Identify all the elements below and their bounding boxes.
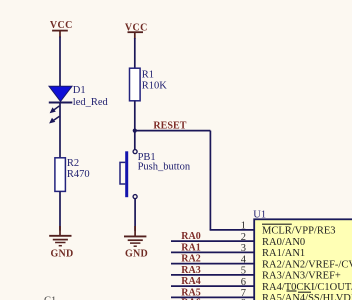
power VCC (right): [125, 23, 148, 40]
svg-text:RA3/AN3/VREF+: RA3/AN3/VREF+: [262, 271, 341, 282]
ground GND (left): [49, 226, 73, 260]
wire pin 5 RA3: [171, 274, 254, 276]
wire R2 to GND: [59, 191, 61, 230]
wire VCC to LED anode: [59, 37, 61, 87]
svg-text:Push_button: Push_button: [138, 162, 191, 173]
svg-text:RA1/AN1: RA1/AN1: [262, 248, 305, 259]
wire LED cathode to R2: [59, 102, 61, 158]
wire pin 3 RA1: [171, 251, 254, 253]
pin 1 name MCLR/VPP/RE3 with MCLR overline: [262, 224, 336, 236]
ground GND (right): [124, 226, 148, 260]
svg-text:RA5/AN4/SS/HLVDIN/C2OUT: RA5/AN4/SS/HLVDIN/C2OUT: [262, 293, 352, 300]
svg-text:RA2: RA2: [181, 254, 200, 265]
wire VCC to R1: [134, 38, 136, 68]
svg-text:R10K: R10K: [142, 81, 168, 92]
svg-text:R470: R470: [67, 169, 90, 180]
wire pin 6 RA4: [171, 285, 254, 287]
svg-text:R1: R1: [142, 70, 154, 81]
svg-text:RA2/AN2/VREF-/CVREF: RA2/AN2/VREF-/CVREF: [262, 259, 352, 270]
svg-text:RA3: RA3: [181, 265, 200, 276]
svg-text:MCLR/VPP/RE3: MCLR/VPP/RE3: [262, 226, 336, 237]
wire RESET vertical: [209, 131, 211, 230]
svg-text:VCC: VCC: [50, 20, 73, 31]
svg-text:GND: GND: [50, 249, 73, 260]
power VCC (left): [50, 20, 73, 37]
svg-text:RA0/AN0: RA0/AN0: [262, 237, 305, 248]
svg-text:R2: R2: [67, 158, 79, 169]
junction: [133, 129, 137, 133]
push button PB1: [120, 150, 191, 199]
pin 6 name RA4/T0CKI/C1OUT/RCV with underline: [262, 282, 352, 293]
wire to pin 1: [210, 229, 254, 231]
pin 7 name RA5/AN4/SS/HLVDIN/C2OUT with SS overline: [262, 292, 352, 300]
IC U1 body: [253, 209, 352, 300]
svg-text:RA4/T0CKI/C1OUT/RCV: RA4/T0CKI/C1OUT/RCV: [262, 282, 352, 293]
svg-text:RA4: RA4: [181, 276, 200, 287]
wire PB1 to GND: [134, 199, 136, 231]
svg-text:GND: GND: [125, 249, 148, 260]
wire R1 to junction and PB1: [134, 101, 136, 150]
wire pin 2 RA0: [171, 240, 254, 242]
wire pin 7 RA5: [171, 296, 254, 298]
LED D1 led_Red: [49, 85, 109, 124]
svg-text:C1: C1: [44, 296, 56, 300]
resistor R2 R470: [55, 158, 90, 192]
wire RESET horizontal: [135, 130, 211, 132]
svg-text:led_Red: led_Red: [73, 97, 109, 108]
svg-text:1: 1: [241, 221, 246, 232]
svg-text:D1: D1: [73, 85, 86, 96]
resistor R1 R10K: [130, 68, 168, 101]
wire pin 4 RA2: [171, 263, 254, 265]
svg-text:RA0: RA0: [181, 231, 200, 242]
svg-text:RA1: RA1: [181, 242, 200, 253]
